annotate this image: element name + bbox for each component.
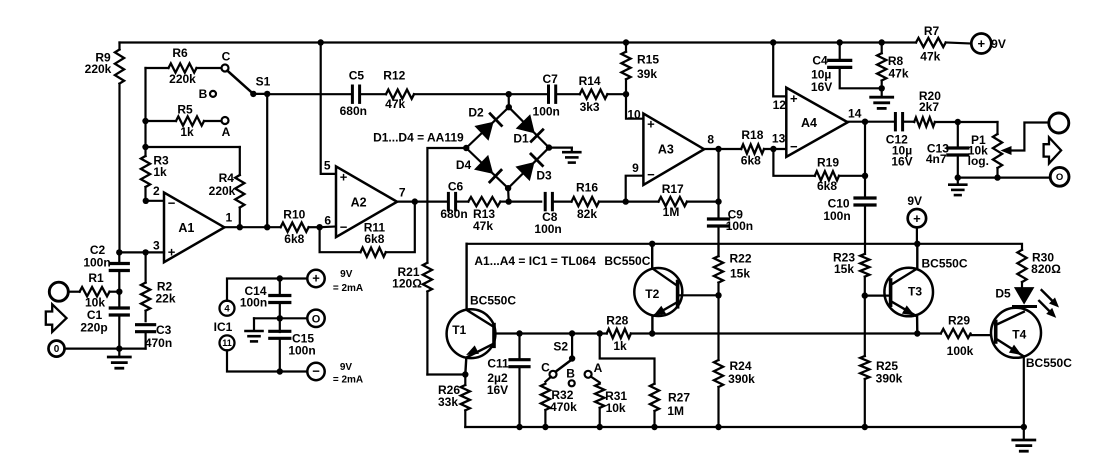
resistor R22 — [714, 244, 752, 295]
resistor R24 — [714, 295, 755, 427]
svg-text:T2: T2 — [645, 287, 659, 301]
IC1 pin 11 terminal — [220, 335, 235, 350]
svg-text:220k: 220k — [209, 184, 236, 198]
svg-text:A4: A4 — [801, 116, 817, 130]
svg-text:6k8: 6k8 — [284, 232, 304, 246]
capacitor C1 — [80, 292, 128, 349]
switch S2 contact A — [585, 361, 603, 378]
resistor R12 — [360, 69, 509, 111]
node: P1 bottom junction — [994, 174, 1000, 180]
svg-text:R17: R17 — [662, 182, 684, 196]
svg-text:R22: R22 — [729, 251, 751, 265]
resistor R31 — [591, 377, 628, 428]
svg-text:A1...A4 = IC1 = TL064: A1...A4 = IC1 = TL064 — [474, 254, 596, 268]
ground (input) — [108, 349, 130, 369]
svg-text:D2: D2 — [468, 105, 484, 119]
node: T3 base junction — [862, 292, 868, 298]
node: 0V mid junction — [277, 315, 308, 321]
svg-text:47k: 47k — [920, 49, 940, 63]
ground (main) — [1013, 427, 1035, 451]
svg-text:−: − — [790, 139, 798, 154]
svg-text:3k3: 3k3 — [580, 100, 600, 114]
wire: R27 branch — [600, 334, 655, 384]
node: R27 bottom — [651, 424, 657, 430]
resistor R23 — [833, 250, 869, 295]
svg-text:A1: A1 — [178, 221, 194, 235]
capacitor C4 — [811, 43, 882, 95]
svg-text:47k: 47k — [473, 219, 493, 233]
resistor R15 — [621, 43, 659, 95]
svg-text:O: O — [312, 313, 321, 325]
svg-text:9: 9 — [632, 161, 639, 175]
node: T1 emitter junction — [462, 371, 468, 377]
svg-text:= 2mA: = 2mA — [333, 375, 363, 386]
svg-text:B: B — [199, 87, 208, 101]
svg-text:R15: R15 — [637, 53, 659, 67]
resistor R1 — [68, 271, 119, 310]
node: A2 output — [397, 198, 418, 204]
node: C4 tap on bias rail — [837, 39, 843, 45]
node: R31 bottom — [597, 424, 603, 430]
node: R32 bottom — [542, 424, 548, 430]
node: bridge left — [463, 145, 469, 151]
resistor R30 — [1017, 250, 1061, 287]
input block arrow — [46, 304, 67, 332]
svg-text:R7: R7 — [924, 24, 940, 38]
wire: R21 to T1 emitter — [427, 373, 465, 375]
svg-text:D5: D5 — [995, 287, 1011, 301]
svg-text:C: C — [222, 50, 231, 64]
svg-text:R28: R28 — [606, 313, 628, 327]
node: R8 bottom junction — [879, 85, 885, 91]
capacitor C5 — [267, 69, 367, 118]
svg-text:680n: 680n — [440, 207, 467, 221]
svg-text:+: + — [913, 211, 921, 226]
svg-text:+: + — [790, 91, 798, 106]
svg-text:= 2mA: = 2mA — [333, 283, 363, 294]
svg-text:R27: R27 — [668, 391, 690, 405]
svg-text:100n: 100n — [534, 222, 561, 236]
node: R15 tap on bias rail — [623, 39, 629, 45]
svg-text:1: 1 — [225, 210, 232, 224]
op-amp A4 — [772, 88, 862, 157]
node: A2 pin6 — [316, 224, 336, 230]
svg-text:C5: C5 — [349, 69, 365, 83]
node: R5 junction — [142, 118, 148, 124]
svg-text:390k: 390k — [876, 371, 903, 385]
svg-text:470k: 470k — [550, 400, 577, 414]
svg-text:R1: R1 — [88, 271, 104, 285]
wire: R6/R5/R3 left column — [144, 68, 146, 147]
node: S1 branch junction — [264, 224, 270, 230]
wire: bias rail (half-supply) — [120, 41, 917, 43]
svg-text:9V: 9V — [340, 269, 353, 280]
svg-text:+: + — [340, 170, 348, 185]
switch S2 — [553, 334, 575, 372]
diode D3 — [515, 154, 552, 182]
op-amp A2 — [324, 158, 406, 237]
svg-text:T1: T1 — [452, 323, 466, 337]
resistor R13 — [456, 197, 509, 233]
svg-text:C: C — [541, 361, 550, 375]
wire: A2 pin5 bias feed — [321, 43, 336, 174]
svg-text:6k8: 6k8 — [817, 179, 837, 193]
svg-text:1k: 1k — [613, 339, 627, 353]
IC1 pin 4 terminal — [220, 301, 235, 316]
svg-text:R16: R16 — [576, 180, 598, 194]
svg-text:680n: 680n — [340, 104, 367, 118]
svg-text:11: 11 — [222, 338, 232, 348]
terminal O (0V) — [307, 310, 324, 327]
svg-text:D1...D4 = AA119: D1...D4 = AA119 — [373, 130, 464, 144]
svg-text:10: 10 — [627, 108, 641, 122]
capacitor C7 — [509, 72, 560, 118]
resistor R19 feedback — [773, 149, 865, 193]
output block arrow — [1044, 137, 1062, 163]
svg-text:log.: log. — [968, 154, 989, 168]
svg-text:A2: A2 — [351, 195, 367, 209]
node: C9 column junction — [715, 198, 721, 204]
node: R14/R15 junction — [623, 91, 629, 97]
svg-text:R5: R5 — [177, 102, 193, 116]
switch S1 lever — [227, 71, 270, 98]
svg-text:10k: 10k — [606, 401, 626, 415]
ground (C13) — [949, 178, 966, 196]
svg-text:39k: 39k — [637, 67, 657, 81]
svg-text:9V: 9V — [991, 37, 1006, 51]
svg-text:R18: R18 — [741, 128, 763, 142]
svg-text:22k: 22k — [155, 292, 175, 306]
svg-text:470n: 470n — [145, 336, 172, 350]
svg-text:13: 13 — [772, 131, 786, 145]
svg-text:100n: 100n — [823, 209, 850, 223]
resistor R18 — [741, 128, 787, 168]
svg-text:100n: 100n — [288, 343, 315, 357]
svg-text:D3: D3 — [536, 168, 552, 182]
node: A4 pin12 tap on bias rail — [770, 39, 776, 45]
node: A4 pin13 junction — [770, 146, 776, 152]
node: R4 output junction — [237, 224, 243, 230]
svg-text:−: − — [340, 219, 348, 234]
potentiometer P1 — [958, 122, 1049, 178]
node: T2 base junction — [715, 292, 721, 298]
capacitor C13 — [926, 122, 968, 178]
diode D4 — [456, 155, 501, 182]
svg-text:R6: R6 — [172, 46, 188, 60]
capacitor C8 — [509, 193, 562, 236]
capacitor C12 — [886, 114, 913, 169]
node: A1 pin2 — [143, 198, 164, 204]
node: T4 emitter ground — [1021, 424, 1027, 430]
svg-text:2: 2 — [153, 184, 160, 198]
transistor T4 — [991, 308, 1072, 370]
node: R19/C10 junction — [862, 122, 868, 179]
capacitor C15 — [270, 331, 316, 371]
svg-text:C4: C4 — [812, 54, 828, 68]
svg-text:IC1: IC1 — [214, 320, 233, 334]
IC1 label — [214, 320, 233, 334]
svg-text:BC550C: BC550C — [921, 257, 967, 271]
output jack (top) — [1049, 113, 1069, 133]
node: bridge bottom vertex — [505, 185, 511, 191]
resistor R28 — [606, 313, 652, 353]
svg-text:6k8: 6k8 — [741, 154, 761, 168]
resistor R9 — [85, 43, 124, 84]
wire: bottom ground rail — [465, 426, 1024, 428]
node: T2 emitter junction — [649, 330, 655, 336]
label: A1...A4 = IC1 = TL064 — [474, 254, 596, 268]
wire: S1 vertical branch — [266, 94, 268, 227]
svg-text:O: O — [1056, 172, 1063, 183]
transistor T2 — [604, 244, 682, 334]
svg-text:33k: 33k — [438, 395, 458, 409]
svg-text:47k: 47k — [888, 67, 908, 81]
wire: pin4 to + terminal — [227, 279, 307, 301]
svg-text:100k: 100k — [947, 344, 974, 358]
svg-text:1k: 1k — [180, 125, 194, 139]
wire: A4 output — [848, 121, 895, 123]
svg-text:100n: 100n — [726, 219, 753, 233]
node: S2 pivot tap — [569, 330, 575, 336]
ground (IC1 0V) — [246, 318, 280, 341]
transistor T3 — [884, 244, 967, 334]
diode D1 — [513, 114, 542, 145]
resistor R17 — [626, 182, 719, 219]
svg-text:1M: 1M — [667, 404, 684, 418]
svg-text:C6: C6 — [448, 179, 464, 193]
resistor R14 — [556, 74, 626, 114]
wire: C10 column to R23 — [864, 244, 866, 254]
svg-text:15k: 15k — [834, 262, 854, 276]
wire: 9V collector rail — [467, 244, 1022, 250]
resistor R16 — [552, 180, 625, 221]
svg-text:120Ω: 120Ω — [392, 276, 422, 290]
svg-text:B: B — [566, 367, 575, 381]
wire: R29 to T4 base — [971, 334, 996, 336]
node: C14 top — [277, 275, 283, 281]
wire: C14 to C15 column — [279, 303, 281, 333]
svg-text:−: − — [647, 167, 655, 182]
node: R27 branch tap — [597, 330, 603, 336]
svg-text:2k7: 2k7 — [919, 100, 939, 114]
svg-text:820Ω: 820Ω — [1031, 262, 1061, 276]
node: R1/C1/C2 junction — [116, 289, 122, 295]
node: C11 bottom — [516, 424, 522, 430]
ground (R8) — [871, 88, 893, 108]
svg-text:R29: R29 — [948, 313, 970, 327]
svg-text:C7: C7 — [543, 72, 559, 86]
svg-text:+: + — [312, 271, 320, 286]
svg-text:8: 8 — [707, 132, 714, 146]
svg-text:9V: 9V — [907, 194, 922, 208]
resistor R3 — [141, 147, 169, 201]
ground (bridge right node) — [549, 148, 580, 163]
svg-text:6k8: 6k8 — [364, 232, 384, 246]
svg-text:A: A — [222, 125, 231, 139]
node: 9V rail junction — [914, 241, 920, 247]
node: A3 pin9 junction — [623, 198, 629, 204]
terminal + (9V supply) — [307, 269, 363, 294]
resistor R4 — [209, 147, 245, 227]
svg-text:+: + — [168, 244, 176, 259]
node: A2 pin5 tap on bias rail — [318, 39, 324, 45]
node: R3 top junction — [142, 144, 148, 150]
switch S2 contact B — [566, 367, 575, 387]
resistor R5 — [146, 102, 222, 139]
node: T3 emitter junction — [914, 330, 920, 336]
capacitor C14 — [240, 279, 290, 310]
diode D2 — [468, 105, 501, 140]
svg-text:390k: 390k — [728, 372, 755, 386]
svg-text:BC550C: BC550C — [470, 293, 516, 307]
terminal - (9V supply) — [307, 362, 363, 386]
node: C13 bottom junction — [955, 174, 961, 180]
node: C11 tap — [516, 330, 522, 336]
svg-text:R12: R12 — [383, 69, 405, 83]
node: C2 top junction — [116, 249, 122, 255]
wire: A3 pin10 feed — [626, 94, 643, 119]
svg-text:6: 6 — [324, 214, 331, 228]
node: bridge right — [546, 144, 552, 150]
svg-text:D1: D1 — [513, 131, 529, 145]
svg-text:47k: 47k — [385, 97, 405, 111]
svg-text:9V: 9V — [340, 362, 353, 373]
svg-text:16V: 16V — [811, 80, 832, 94]
svg-text:−: − — [312, 364, 320, 379]
node: A4 output junction — [862, 119, 868, 125]
op-amp A3 — [627, 108, 714, 185]
capacitor C6 — [415, 179, 468, 221]
svg-text:220k: 220k — [169, 72, 196, 86]
svg-text:4n7: 4n7 — [926, 152, 947, 166]
svg-text:+: + — [647, 117, 655, 132]
svg-text:−: − — [168, 196, 176, 211]
svg-text:100n: 100n — [83, 256, 110, 270]
node: R25 bottom — [862, 424, 868, 430]
resistor R8 — [877, 43, 909, 89]
svg-text:220k: 220k — [85, 62, 112, 76]
capacitor C9 — [709, 202, 754, 257]
wire: bridge edges — [466, 94, 549, 201]
node: bridge top stub — [506, 91, 512, 97]
input jack — [49, 282, 68, 301]
node: bridge top — [506, 104, 512, 110]
svg-text:A3: A3 — [658, 143, 674, 157]
wire: A1 pin3 line — [119, 251, 164, 253]
node: R2 top junction — [142, 249, 148, 255]
wire: T3 base lead — [865, 295, 891, 297]
svg-text:100n: 100n — [240, 295, 267, 309]
svg-text:16V: 16V — [487, 383, 508, 397]
svg-text:15k: 15k — [730, 266, 750, 280]
wire: bridge left to R21 — [427, 148, 466, 263]
svg-text:7: 7 — [399, 185, 406, 199]
wire: A4 pin12 bias feed — [773, 43, 786, 97]
capacitor C3 — [137, 323, 173, 350]
svg-text:R10: R10 — [283, 207, 305, 221]
svg-text:C11: C11 — [487, 356, 509, 370]
wire: output ground line — [958, 177, 1050, 179]
node: A3 output junction — [715, 146, 721, 152]
wire: A1 feedback — [146, 146, 240, 148]
node: input ground junction — [116, 345, 122, 351]
svg-text:R14: R14 — [579, 74, 601, 88]
svg-text:16V: 16V — [891, 155, 912, 169]
switch S2 contact C — [541, 361, 556, 378]
wire: T2 base lead — [678, 294, 719, 296]
resistor R10 — [281, 207, 320, 246]
wire: base rail left — [520, 332, 607, 334]
wire: base rail mid — [652, 332, 941, 334]
switch S1 contact C — [222, 50, 231, 72]
node: R24 bottom — [715, 424, 721, 430]
LED D5 — [995, 287, 1035, 312]
svg-text:0: 0 — [54, 344, 60, 355]
svg-text:1M: 1M — [663, 205, 680, 219]
svg-text:+: + — [978, 36, 986, 51]
label: D1...D4 = AA119 — [373, 130, 464, 144]
wire: A3out to C9 column — [717, 149, 719, 202]
node: bridge bottom — [506, 198, 512, 204]
resistor R32 — [541, 377, 577, 427]
svg-text:T4: T4 — [1012, 327, 1026, 341]
svg-text:3: 3 — [153, 238, 160, 252]
svg-text:5: 5 — [324, 158, 331, 172]
LED light arrows — [1039, 290, 1059, 318]
node: R8 tap on bias rail — [879, 39, 885, 45]
svg-text:C3: C3 — [156, 323, 172, 337]
svg-text:R4: R4 — [219, 171, 235, 185]
svg-text:R19: R19 — [817, 156, 839, 170]
switch S1 contact A — [222, 117, 231, 139]
resistor R11 feedback loop — [320, 202, 415, 257]
node: T2 collector junction — [649, 241, 655, 247]
node: R20/C13/P1 junction — [955, 119, 961, 125]
capacitor C2 — [83, 243, 128, 292]
svg-text:A: A — [594, 361, 603, 375]
terminal 9V (mid) — [907, 194, 926, 244]
resistor R29 — [941, 313, 974, 358]
svg-text:S2: S2 — [553, 340, 568, 354]
op-amp A1 — [153, 184, 232, 262]
capacitor C10 — [823, 176, 875, 244]
terminal 0 (input ground) — [49, 341, 65, 357]
resistor R2 — [141, 252, 176, 321]
svg-text:100n: 100n — [533, 104, 560, 118]
wire: T4 emitter to ground — [1023, 356, 1025, 427]
resistor R21 — [392, 263, 432, 375]
resistor R27 — [650, 384, 690, 427]
svg-text:BC550C: BC550C — [1026, 356, 1072, 370]
svg-text:D4: D4 — [456, 158, 472, 172]
svg-text:T3: T3 — [908, 285, 922, 299]
wire: pin11 to - terminal — [227, 350, 307, 371]
wire: A3 pin9 branch — [626, 176, 644, 202]
node: S1 common — [253, 91, 270, 97]
node: C15 bottom — [277, 368, 283, 374]
resistor R20 — [903, 89, 958, 127]
wire: input ground line — [65, 348, 146, 350]
resistor R7 — [916, 24, 946, 63]
terminal +9V (top) — [946, 34, 1006, 54]
resistor R6 — [146, 46, 222, 86]
svg-text:S1: S1 — [256, 74, 271, 88]
wire: A1 output line — [224, 226, 280, 228]
svg-text:220p: 220p — [80, 321, 107, 335]
transistor T1 — [447, 244, 517, 375]
svg-text:1k: 1k — [153, 165, 167, 179]
svg-text:82k: 82k — [577, 207, 597, 221]
